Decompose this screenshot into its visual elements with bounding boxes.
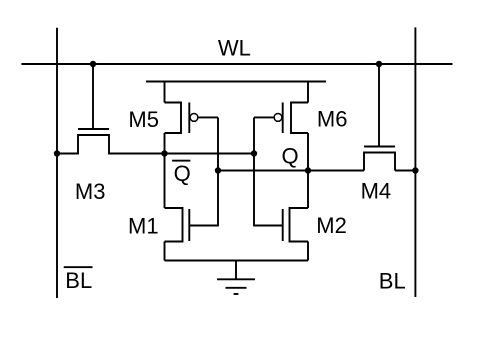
svg-text:BL: BL [379, 268, 406, 293]
label BLbar [64, 266, 93, 293]
node junction M3 source on BLbar [54, 150, 60, 156]
svg-text:Q: Q [174, 161, 191, 186]
node junction M6 gate on Qbar [251, 150, 257, 156]
node junction M3 gate on WL [90, 61, 96, 67]
svg-text:M2: M2 [316, 213, 347, 238]
wire node Q horizontal [218, 170, 364, 172]
node junction M4 drain on BL [412, 167, 418, 173]
svg-text:M5: M5 [128, 107, 159, 132]
svg-text:M6: M6 [317, 107, 348, 132]
svg-text:M1: M1 [128, 213, 159, 238]
wire bit line BLbar (left vertical) [56, 28, 58, 298]
wire bit line BL (right vertical) [414, 27, 416, 297]
transistor M1 (NMOS pull-down, left) [165, 154, 190, 261]
svg-text:WL: WL [218, 35, 251, 60]
ground [217, 261, 255, 295]
svg-text:Q: Q [282, 143, 299, 168]
transistor M2 (NMOS pull-down, right) [283, 171, 308, 261]
node junction M6 drain on Q [305, 167, 311, 173]
wire WL word line [21, 63, 452, 65]
wire M6 gate cross-couple drop to Qbar and M2 gate [254, 118, 283, 226]
svg-text:M4: M4 [361, 179, 392, 204]
wire VDD rail [146, 81, 326, 83]
node junction M5 drain on Qbar [161, 150, 167, 156]
label Qbar [172, 160, 191, 187]
wire node Qbar horizontal [109, 153, 254, 155]
wire VSS source rail [165, 260, 309, 262]
transistor M5 (PMOS pull-up, left) [165, 82, 219, 154]
transistor M4 (access NMOS, right) [364, 64, 415, 171]
transistor M6 (PMOS pull-up, right) [254, 82, 308, 171]
wire M5 gate cross-couple drop to Q and M1 gate [189, 118, 218, 226]
svg-text:BL: BL [65, 268, 92, 293]
transistor M3 (access NMOS, left) [57, 64, 130, 154]
node junction M5 gate on Q [215, 167, 221, 173]
node junction M4 gate on WL [376, 61, 382, 67]
svg-text:M3: M3 [75, 179, 106, 204]
